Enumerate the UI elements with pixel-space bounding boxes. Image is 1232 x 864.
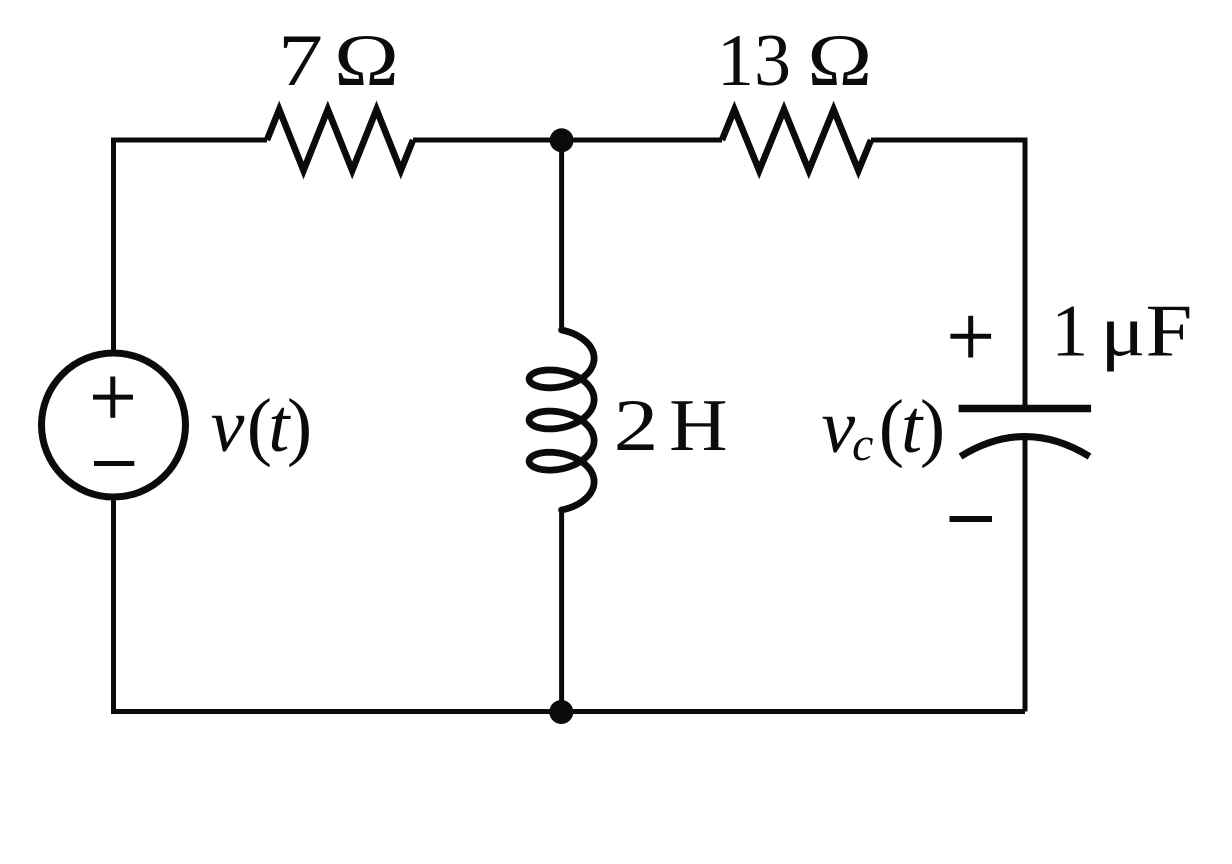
svg-text:v(t): v(t) [211,384,313,468]
svg-text:13Ω: 13Ω [717,20,872,102]
svg-text:1μF: 1μF [1051,291,1192,373]
svg-text:2H: 2H [614,385,728,467]
svg-text:7Ω: 7Ω [278,20,399,102]
svg-text:vc(t): vc(t) [821,385,945,471]
